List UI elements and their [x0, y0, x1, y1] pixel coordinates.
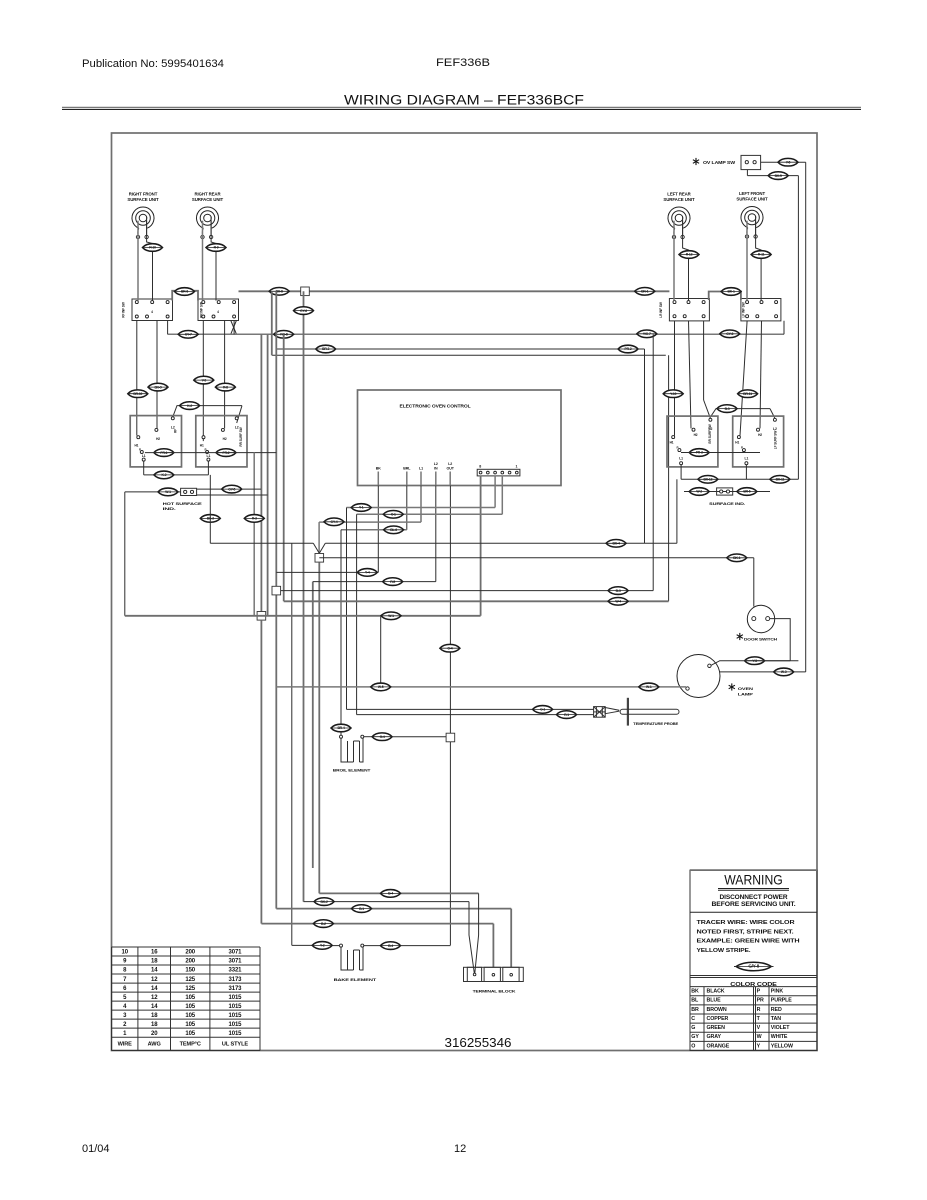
svg-text:GY-4: GY-4 — [331, 520, 338, 524]
svg-text:B-3: B-3 — [725, 407, 730, 411]
svg-text:1015: 1015 — [228, 1004, 242, 1010]
svg-text:DISCONNECT POWER: DISCONNECT POWER — [720, 895, 789, 901]
svg-text:W-3: W-3 — [781, 670, 787, 674]
svg-text:Y-5: Y-5 — [786, 160, 791, 164]
svg-text:BK-5: BK-5 — [775, 174, 782, 178]
svg-text:PR: PR — [757, 998, 764, 1004]
svg-text:LEFT REAR: LEFT REAR — [667, 192, 691, 197]
svg-text:UL STYLE: UL STYLE — [222, 1042, 249, 1048]
svg-text:4: 4 — [123, 1004, 127, 1010]
svg-text:SURFACE UNIT: SURFACE UNIT — [192, 197, 224, 202]
svg-text:BR-10: BR-10 — [133, 392, 142, 396]
svg-text:P: P — [757, 989, 761, 995]
svg-text:BK: BK — [376, 466, 381, 470]
svg-text:Y-2: Y-2 — [320, 944, 325, 948]
svg-text:BR-4: BR-4 — [337, 726, 344, 730]
svg-text:2: 2 — [123, 1022, 127, 1028]
svg-text:BROWN: BROWN — [707, 1007, 727, 1013]
svg-text:L1: L1 — [207, 454, 211, 458]
svg-text:18: 18 — [151, 1013, 158, 1019]
svg-text:LF INF SW: LF INF SW — [742, 302, 746, 317]
svg-text:L1: L1 — [419, 466, 423, 470]
svg-text:GY: GY — [691, 1034, 699, 1040]
svg-text:TEMP°C: TEMP°C — [180, 1042, 201, 1048]
svg-text:G/Y-8: G/Y-8 — [748, 964, 759, 969]
svg-text:ELECTRONIC OVEN CONTROL: ELECTRONIC OVEN CONTROL — [400, 404, 471, 410]
svg-text:W-2: W-2 — [696, 490, 702, 494]
svg-text:8: 8 — [123, 968, 127, 974]
svg-text:125: 125 — [185, 986, 195, 992]
svg-text:12: 12 — [151, 995, 158, 1001]
svg-text:LEFT FRONT: LEFT FRONT — [739, 191, 765, 196]
svg-text:BROIL ELEMENT: BROIL ELEMENT — [333, 768, 371, 772]
svg-text:BEFORE SERVICING UNIT.: BEFORE SERVICING UNIT. — [712, 902, 796, 908]
svg-text:B-4: B-4 — [388, 892, 393, 896]
svg-text:TRACER WIRE: WIRE COLOR: TRACER WIRE: WIRE COLOR — [697, 920, 795, 926]
svg-text:WIRING DIAGRAM – FEF336BCF: WIRING DIAGRAM – FEF336BCF — [344, 93, 584, 108]
svg-text:WHITE: WHITE — [771, 1034, 788, 1040]
svg-text:G: G — [691, 1025, 695, 1031]
svg-text:OVEN: OVEN — [738, 686, 753, 691]
svg-text:LR INF SW: LR INF SW — [659, 302, 663, 317]
svg-text:20: 20 — [151, 1031, 158, 1037]
svg-text:K-2: K-2 — [161, 473, 166, 477]
svg-text:B-3: B-3 — [616, 589, 621, 593]
svg-text:Y-9: Y-9 — [202, 378, 207, 382]
svg-text:3071: 3071 — [228, 959, 242, 965]
svg-text:COPPER: COPPER — [707, 1016, 729, 1022]
svg-text:WARNING: WARNING — [724, 872, 783, 888]
svg-text:9: 9 — [123, 959, 127, 965]
svg-text:BR-8: BR-8 — [181, 290, 188, 294]
svg-text:1: 1 — [123, 1031, 127, 1037]
svg-text:OUT: OUT — [447, 466, 455, 470]
svg-text:R-8: R-8 — [223, 385, 228, 389]
svg-text:H1: H1 — [735, 441, 739, 445]
svg-text:3071: 3071 — [228, 950, 242, 956]
svg-text:IN: IN — [434, 466, 438, 470]
svg-text:SURFACE UNIT: SURFACE UNIT — [663, 197, 695, 202]
svg-text:1015: 1015 — [228, 1022, 242, 1028]
svg-text:10: 10 — [121, 950, 128, 956]
svg-text:125: 125 — [185, 977, 195, 983]
svg-text:105: 105 — [185, 1013, 195, 1019]
svg-text:PINK: PINK — [771, 989, 784, 995]
svg-text:01/04: 01/04 — [82, 1143, 110, 1155]
svg-text:14: 14 — [151, 1004, 158, 1010]
svg-text:SURFACE IND.: SURFACE IND. — [709, 501, 745, 506]
svg-text:GRAY: GRAY — [707, 1034, 722, 1040]
svg-text:105: 105 — [185, 1004, 195, 1010]
svg-text:DOOR SWITCH: DOOR SWITCH — [744, 638, 777, 642]
svg-text:BK-1: BK-1 — [641, 290, 648, 294]
svg-text:NOTED FIRST, STRIPE NEXT.: NOTED FIRST, STRIPE NEXT. — [697, 929, 795, 935]
svg-text:3173: 3173 — [228, 977, 242, 983]
svg-text:O-4: O-4 — [447, 646, 452, 650]
svg-text:3: 3 — [123, 1013, 127, 1019]
svg-text:SURFACE UNIT: SURFACE UNIT — [736, 197, 768, 202]
svg-text:VIOLET: VIOLET — [771, 1025, 790, 1031]
svg-text:BK-12: BK-12 — [703, 478, 712, 482]
svg-text:16: 16 — [151, 950, 158, 956]
svg-text:EXAMPLE: GREEN WIRE WITH: EXAMPLE: GREEN WIRE WITH — [697, 939, 800, 945]
svg-text:R: R — [757, 1007, 761, 1013]
svg-text:L1: L1 — [142, 454, 146, 458]
svg-text:L2: L2 — [448, 462, 452, 466]
svg-text:GY-8: GY-8 — [726, 332, 733, 336]
svg-text:W-1: W-1 — [165, 490, 171, 494]
svg-text:BR-6: BR-6 — [743, 490, 750, 494]
svg-text:BK: BK — [691, 989, 699, 995]
svg-text:Y-4: Y-4 — [365, 571, 370, 575]
svg-text:105: 105 — [185, 1031, 195, 1037]
svg-text:5: 5 — [123, 995, 127, 1001]
svg-text:7: 7 — [123, 977, 127, 983]
svg-text:W-4: W-4 — [615, 600, 621, 604]
svg-text:LAMP: LAMP — [738, 692, 754, 697]
svg-text:YELLOW: YELLOW — [771, 1043, 793, 1049]
svg-text:18: 18 — [151, 1022, 158, 1028]
svg-text:L1: L1 — [745, 457, 749, 461]
svg-text:YELLOW STRIPE.: YELLOW STRIPE. — [697, 948, 752, 954]
svg-text:BRL: BRL — [403, 466, 411, 470]
svg-text:L2: L2 — [709, 427, 713, 431]
svg-text:RR SURF SW: RR SURF SW — [239, 427, 243, 446]
svg-text:12: 12 — [151, 977, 158, 983]
svg-text:Y-1: Y-1 — [359, 506, 364, 510]
svg-text:4: 4 — [151, 310, 153, 314]
svg-text:L2: L2 — [235, 426, 239, 430]
svg-text:BK-9: BK-9 — [154, 385, 161, 389]
svg-text:R-9: R-9 — [214, 246, 219, 250]
svg-text:RF INF SW: RF INF SW — [121, 302, 125, 317]
svg-text:BL: BL — [691, 998, 699, 1004]
svg-text:IND.: IND. — [163, 506, 176, 511]
svg-text:8: 8 — [479, 465, 481, 469]
svg-text:18: 18 — [151, 959, 158, 965]
svg-text:Y/G-7: Y/G-7 — [643, 332, 651, 336]
svg-text:W-1: W-1 — [388, 614, 394, 618]
svg-text:L2: L2 — [773, 427, 777, 431]
svg-text:BL-6: BL-6 — [390, 528, 397, 532]
svg-text:14: 14 — [151, 986, 158, 992]
svg-text:1015: 1015 — [228, 1031, 242, 1037]
svg-text:PR-2: PR-2 — [625, 347, 632, 351]
svg-text:O: O — [691, 1043, 695, 1049]
svg-text:W: W — [757, 1034, 762, 1040]
svg-text:BR: BR — [691, 1007, 699, 1013]
svg-text:RIGHT FRONT: RIGHT FRONT — [129, 192, 158, 197]
svg-text:R-1: R-1 — [564, 713, 569, 717]
svg-text:GY-7: GY-7 — [185, 333, 192, 337]
svg-text:GY-5: GY-5 — [228, 487, 235, 491]
svg-text:K-2: K-2 — [187, 404, 192, 408]
svg-text:L2: L2 — [434, 462, 438, 466]
svg-text:SURFACE UNIT: SURFACE UNIT — [127, 197, 159, 202]
svg-text:H2: H2 — [156, 437, 160, 441]
svg-text:H1: H1 — [200, 444, 204, 448]
svg-text:O-4: O-4 — [380, 735, 385, 739]
svg-text:W-1: W-1 — [646, 685, 652, 689]
svg-text:PURPLE: PURPLE — [771, 998, 792, 1004]
svg-text:OV LAMP SW: OV LAMP SW — [703, 160, 735, 165]
svg-text:B-1: B-1 — [359, 907, 364, 911]
svg-text:AWG: AWG — [148, 1042, 161, 1048]
svg-text:1015: 1015 — [228, 995, 242, 1001]
svg-text:BR-2: BR-2 — [322, 347, 329, 351]
svg-text:B-4: B-4 — [388, 944, 393, 948]
svg-text:14: 14 — [151, 968, 158, 974]
svg-text:150: 150 — [185, 968, 195, 974]
svg-text:H2: H2 — [223, 437, 227, 441]
svg-text:3321: 3321 — [228, 968, 242, 974]
svg-text:105: 105 — [185, 1022, 195, 1028]
svg-text:R-3: R-3 — [252, 517, 257, 521]
svg-text:BLACK: BLACK — [707, 989, 725, 995]
svg-text:6: 6 — [123, 986, 127, 992]
svg-text:B-2: B-2 — [321, 922, 326, 926]
svg-text:R-11: R-11 — [758, 253, 765, 257]
svg-text:3173: 3173 — [228, 986, 242, 992]
svg-text:WIRE: WIRE — [118, 1042, 133, 1048]
svg-text:LF SURF SW: LF SURF SW — [774, 431, 778, 450]
svg-text:ORANGE: ORANGE — [707, 1043, 730, 1049]
svg-text:BK-2: BK-2 — [321, 900, 328, 904]
svg-text:RED: RED — [771, 1007, 782, 1013]
svg-text:BLUE: BLUE — [707, 998, 722, 1004]
svg-text:R-12: R-12 — [686, 253, 693, 257]
svg-text:4: 4 — [217, 310, 219, 314]
svg-text:200: 200 — [185, 950, 195, 956]
svg-text:Publication No: 5995401634: Publication No: 5995401634 — [82, 58, 224, 70]
svg-text:12: 12 — [454, 1143, 466, 1155]
svg-text:W-5: W-5 — [378, 685, 384, 689]
svg-text:TERMINAL BLOCK: TERMINAL BLOCK — [473, 990, 516, 994]
svg-text:T: T — [757, 1016, 761, 1022]
svg-text:L1: L1 — [679, 457, 683, 461]
svg-text:TAN: TAN — [771, 1016, 781, 1022]
svg-text:C-1: C-1 — [540, 708, 545, 712]
svg-text:BK-11: BK-11 — [776, 478, 785, 482]
svg-text:H1: H1 — [670, 441, 674, 445]
svg-text:BR-11: BR-11 — [743, 392, 752, 396]
svg-text:FEF336B: FEF336B — [436, 57, 490, 69]
svg-text:R-10: R-10 — [149, 246, 156, 250]
svg-text:Y-10: Y-10 — [670, 392, 676, 396]
svg-text:GREEN: GREEN — [707, 1025, 726, 1031]
svg-text:BK-4: BK-4 — [613, 542, 620, 546]
svg-text:BK-1: BK-1 — [733, 556, 740, 560]
svg-text:1015: 1015 — [228, 1013, 242, 1019]
svg-text:C-1: C-1 — [391, 513, 396, 517]
svg-text:C: C — [691, 1016, 695, 1022]
svg-text:1: 1 — [515, 465, 517, 469]
svg-text:200: 200 — [185, 959, 195, 965]
svg-text:316255346: 316255346 — [445, 1035, 512, 1050]
svg-text:H2: H2 — [758, 433, 762, 437]
svg-text:105: 105 — [185, 995, 195, 1001]
svg-text:R-5: R-5 — [390, 580, 395, 584]
svg-text:BAKE ELEMENT: BAKE ELEMENT — [334, 978, 378, 982]
svg-text:V: V — [757, 1025, 761, 1031]
svg-text:L2: L2 — [171, 426, 175, 430]
svg-text:H2: H2 — [694, 433, 698, 437]
svg-text:RIGHT REAR: RIGHT REAR — [195, 192, 222, 197]
svg-text:TEMPERATURE PROBE: TEMPERATURE PROBE — [633, 722, 679, 726]
svg-text:BK-1: BK-1 — [728, 290, 735, 294]
svg-text:Y: Y — [757, 1043, 761, 1049]
svg-text:GY-6: GY-6 — [300, 309, 307, 313]
